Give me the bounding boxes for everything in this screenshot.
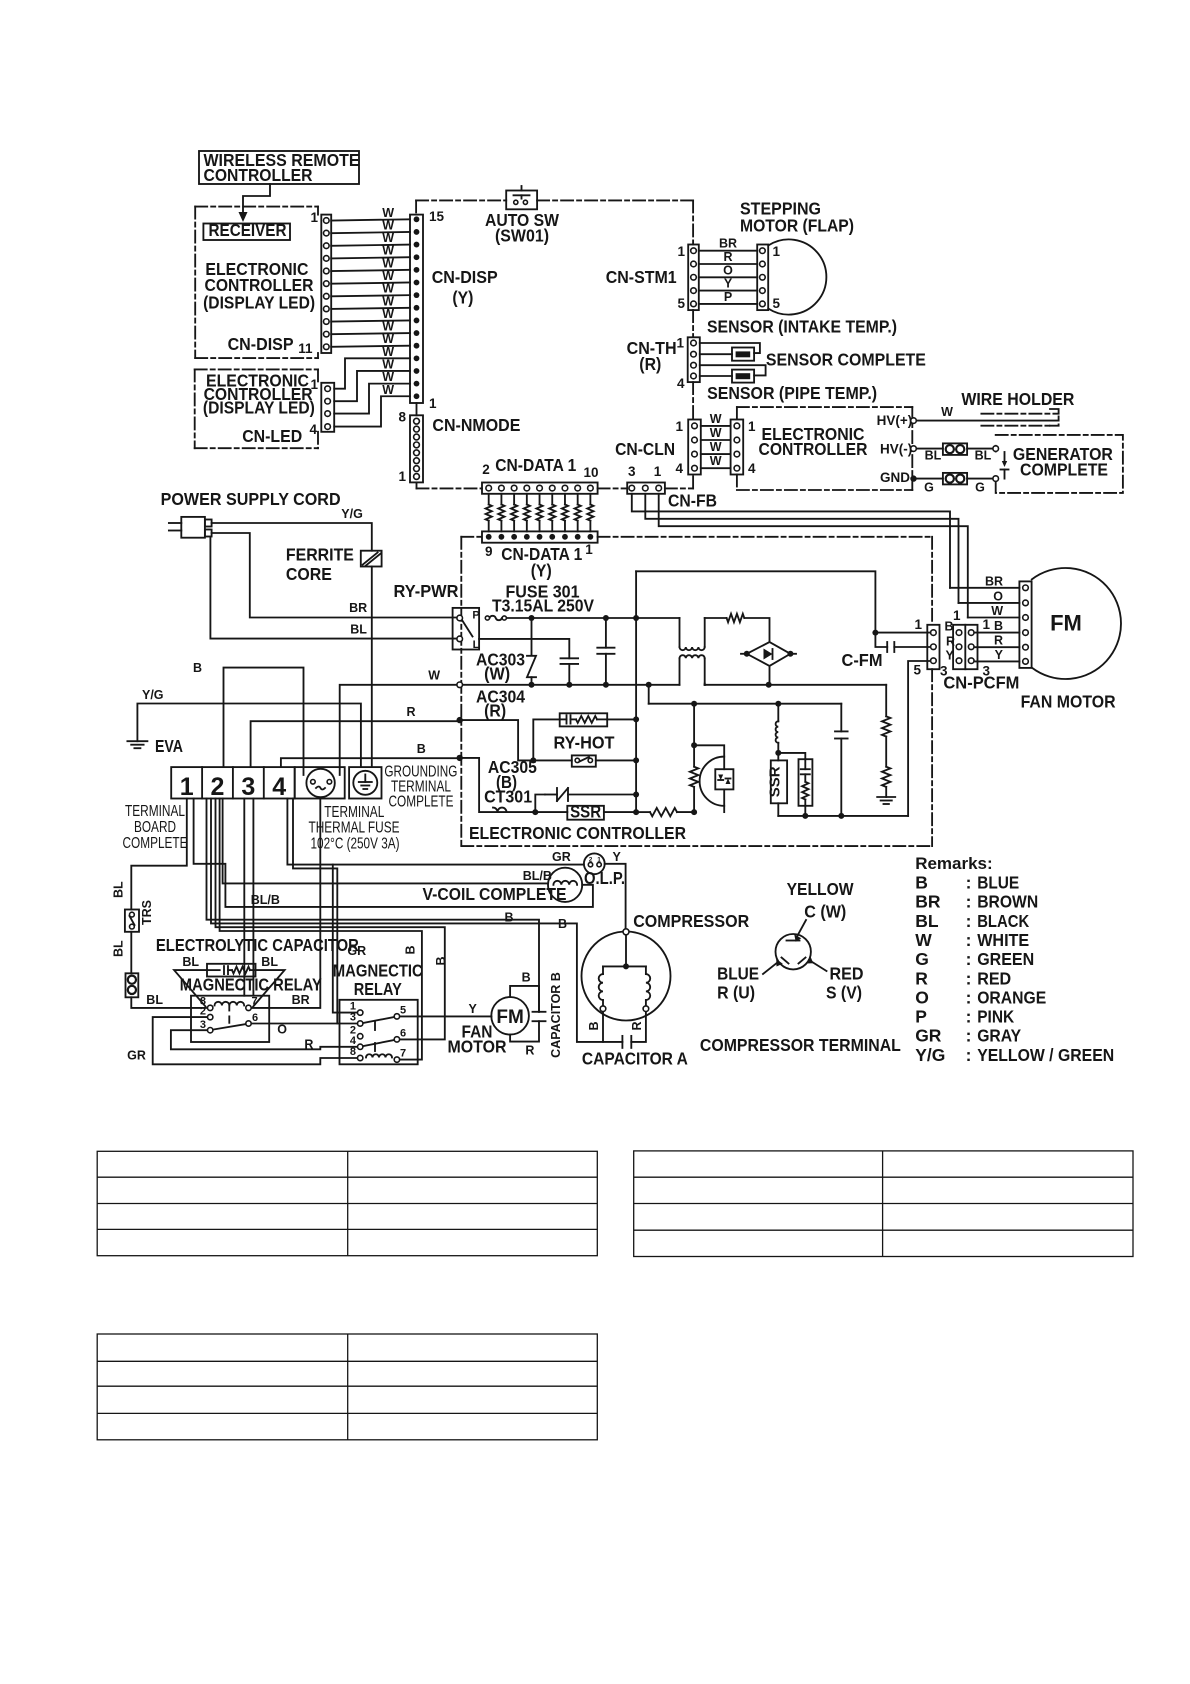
svg-text:COMPLETE: COMPLETE xyxy=(389,794,454,811)
svg-text:G: G xyxy=(924,481,934,495)
svg-text::: : xyxy=(966,892,972,912)
svg-text:R (U): R (U) xyxy=(717,983,755,1003)
svg-text:WIRE HOLDER: WIRE HOLDER xyxy=(961,389,1074,409)
svg-text::: : xyxy=(966,1045,972,1065)
svg-text:CN-DATA 1: CN-DATA 1 xyxy=(495,455,576,475)
svg-text:BL: BL xyxy=(261,955,278,969)
svg-text:BL/B: BL/B xyxy=(251,893,280,907)
svg-text:BL: BL xyxy=(925,449,942,463)
svg-text:BR: BR xyxy=(349,601,367,615)
svg-text:P: P xyxy=(724,290,732,304)
svg-text:9: 9 xyxy=(485,544,493,559)
svg-text:R: R xyxy=(946,635,955,649)
svg-text:FERRITE: FERRITE xyxy=(286,544,354,564)
svg-text:CN-STM1: CN-STM1 xyxy=(606,267,677,287)
svg-text:POWER SUPPLY CORD: POWER SUPPLY CORD xyxy=(161,489,341,509)
svg-text:COMPLETE: COMPLETE xyxy=(1020,460,1108,480)
svg-text:3: 3 xyxy=(200,1019,206,1031)
svg-text:B: B xyxy=(505,911,514,925)
svg-text::: : xyxy=(966,1007,972,1027)
svg-text:GREEN: GREEN xyxy=(977,949,1034,969)
svg-text:1: 1 xyxy=(748,419,756,434)
svg-text:BL: BL xyxy=(146,993,163,1007)
svg-text:P: P xyxy=(472,610,479,622)
svg-text:SSR: SSR xyxy=(570,801,601,821)
svg-text:2: 2 xyxy=(482,462,490,477)
svg-text:B: B xyxy=(558,917,567,931)
svg-text:HV(+): HV(+) xyxy=(877,413,913,428)
svg-text:BLACK: BLACK xyxy=(977,911,1029,931)
svg-text:4: 4 xyxy=(677,376,685,391)
svg-text:RED: RED xyxy=(977,968,1011,988)
svg-text:CN-PCFM: CN-PCFM xyxy=(943,673,1019,693)
svg-text:4: 4 xyxy=(272,773,286,801)
svg-text:BR: BR xyxy=(292,993,310,1007)
svg-text:CT301: CT301 xyxy=(484,787,532,807)
svg-text:(R): (R) xyxy=(484,700,506,720)
svg-text:B: B xyxy=(434,956,448,965)
svg-text:COMPRESSOR: COMPRESSOR xyxy=(633,911,749,931)
svg-text:5: 5 xyxy=(400,1004,406,1016)
svg-text:O: O xyxy=(915,987,929,1007)
svg-text:BL: BL xyxy=(975,449,992,463)
svg-text:Y/G: Y/G xyxy=(341,507,363,521)
svg-text:SENSOR (INTAKE TEMP.): SENSOR (INTAKE TEMP.) xyxy=(707,317,897,337)
svg-text:CONTROLLER: CONTROLLER xyxy=(204,165,313,185)
svg-text:MAGNECTIC: MAGNECTIC xyxy=(333,960,423,980)
svg-text:BR: BR xyxy=(719,237,737,251)
svg-text:WHITE: WHITE xyxy=(977,930,1029,950)
svg-text:B: B xyxy=(417,742,426,756)
svg-text:RY-HOT: RY-HOT xyxy=(554,733,615,753)
svg-text:8: 8 xyxy=(398,410,406,425)
svg-text:R: R xyxy=(723,250,732,264)
svg-text:BL: BL xyxy=(915,911,939,931)
svg-text:C (W): C (W) xyxy=(804,902,846,922)
svg-text:B: B xyxy=(193,661,202,675)
svg-text:GR: GR xyxy=(915,1026,942,1046)
svg-text:SENSOR (PIPE TEMP.): SENSOR (PIPE TEMP.) xyxy=(707,383,877,403)
svg-text:10: 10 xyxy=(583,465,598,480)
svg-text:CN-DISP: CN-DISP xyxy=(432,267,498,287)
svg-text:1: 1 xyxy=(180,773,194,801)
svg-text:HV(-): HV(-) xyxy=(880,441,912,456)
svg-text:6: 6 xyxy=(400,1027,406,1039)
svg-text:BL: BL xyxy=(182,955,199,969)
svg-text:1: 1 xyxy=(675,419,683,434)
svg-text:SENSOR COMPLETE: SENSOR COMPLETE xyxy=(766,350,926,370)
svg-text:W: W xyxy=(941,405,953,419)
svg-text:102°C (250V 3A): 102°C (250V 3A) xyxy=(311,836,400,853)
svg-text:S (V): S (V) xyxy=(826,983,862,1003)
svg-text::: : xyxy=(966,987,972,1007)
svg-text:1: 1 xyxy=(310,377,318,392)
svg-text:GND: GND xyxy=(880,470,910,485)
svg-text:GR: GR xyxy=(552,850,571,864)
svg-text:11: 11 xyxy=(298,341,313,356)
svg-text:CONTROLLER: CONTROLLER xyxy=(759,439,868,459)
svg-text:R: R xyxy=(525,1043,534,1057)
svg-text:5: 5 xyxy=(773,296,781,311)
svg-text:YELLOW: YELLOW xyxy=(787,879,854,899)
svg-text:W: W xyxy=(710,426,722,440)
svg-text:W: W xyxy=(710,440,722,454)
svg-text:O: O xyxy=(993,589,1003,603)
svg-text:COMPLETE: COMPLETE xyxy=(123,835,188,852)
svg-text:Y/G: Y/G xyxy=(142,688,164,702)
svg-text:(R): (R) xyxy=(639,354,661,374)
svg-text:1: 1 xyxy=(953,608,961,623)
svg-text:(Y): (Y) xyxy=(531,561,552,581)
svg-text:GR: GR xyxy=(127,1048,146,1062)
svg-text:ORANGE: ORANGE xyxy=(977,987,1046,1007)
svg-text:1: 1 xyxy=(429,396,437,411)
svg-text:BL: BL xyxy=(350,623,367,637)
svg-text:BL/B: BL/B xyxy=(523,869,552,883)
svg-text:W: W xyxy=(710,412,722,426)
svg-text:Y: Y xyxy=(724,277,733,291)
svg-text:MAGNECTIC RELAY: MAGNECTIC RELAY xyxy=(180,975,322,995)
svg-text:PINK: PINK xyxy=(977,1007,1014,1027)
svg-text:GRAY: GRAY xyxy=(977,1026,1021,1046)
svg-text:FM: FM xyxy=(1050,611,1082,636)
svg-text:TRS: TRS xyxy=(140,900,154,925)
svg-text:COMPRESSOR TERMINAL: COMPRESSOR TERMINAL xyxy=(700,1035,901,1055)
svg-text:GR: GR xyxy=(347,944,366,958)
svg-text:CAPACITOR B: CAPACITOR B xyxy=(549,972,563,1058)
svg-text:W: W xyxy=(915,930,932,950)
svg-text::: : xyxy=(966,968,972,988)
svg-text:TERMINAL: TERMINAL xyxy=(324,804,384,821)
svg-text:R: R xyxy=(407,705,416,719)
svg-text:FAN MOTOR: FAN MOTOR xyxy=(1021,692,1116,712)
svg-text::: : xyxy=(966,1026,972,1046)
svg-text:P: P xyxy=(915,1007,927,1027)
svg-text:4: 4 xyxy=(350,1035,357,1047)
svg-text:C-FM: C-FM xyxy=(842,650,883,670)
svg-text:CN-CLN: CN-CLN xyxy=(615,439,675,459)
svg-text:1: 1 xyxy=(310,210,318,225)
svg-text:1: 1 xyxy=(677,244,685,259)
svg-text:W: W xyxy=(382,383,394,397)
svg-text:Y: Y xyxy=(946,649,955,663)
svg-text:O.L.P.: O.L.P. xyxy=(584,868,625,888)
svg-text:O: O xyxy=(277,1023,287,1037)
svg-text:1: 1 xyxy=(983,617,991,632)
svg-text:1: 1 xyxy=(914,617,922,632)
svg-text:EVA: EVA xyxy=(155,736,183,756)
svg-text:1: 1 xyxy=(585,542,593,557)
svg-text:O: O xyxy=(723,263,733,277)
svg-text:BR: BR xyxy=(985,574,1003,588)
svg-text:W: W xyxy=(428,669,440,683)
svg-text:FM: FM xyxy=(496,1007,523,1028)
svg-text:5: 5 xyxy=(677,296,685,311)
svg-text:RED: RED xyxy=(830,964,864,984)
svg-text:7: 7 xyxy=(252,996,258,1008)
svg-text:8: 8 xyxy=(350,1046,356,1058)
svg-text:6: 6 xyxy=(252,1012,258,1024)
svg-text:2: 2 xyxy=(211,773,225,801)
svg-text:1: 1 xyxy=(398,469,406,484)
svg-text:5: 5 xyxy=(913,663,921,678)
svg-text:CAPACITOR A: CAPACITOR A xyxy=(582,1049,688,1069)
svg-text:CN-LED: CN-LED xyxy=(242,426,302,446)
svg-text:15: 15 xyxy=(429,209,445,224)
svg-text:BR: BR xyxy=(915,892,941,912)
svg-text:1: 1 xyxy=(654,464,662,479)
svg-text:B: B xyxy=(994,619,1003,633)
svg-text:7: 7 xyxy=(400,1048,406,1060)
svg-text:(W): (W) xyxy=(484,664,510,684)
svg-text:BROWN: BROWN xyxy=(977,892,1038,912)
svg-text:1: 1 xyxy=(676,336,684,351)
svg-text::: : xyxy=(966,949,972,969)
svg-text:2: 2 xyxy=(200,1006,206,1018)
svg-text:Y/G: Y/G xyxy=(915,1045,945,1065)
svg-text:W: W xyxy=(991,604,1003,618)
svg-text:3: 3 xyxy=(241,773,255,801)
svg-text:(DISPLAY LED): (DISPLAY LED) xyxy=(203,398,315,418)
svg-text:R: R xyxy=(630,1021,644,1030)
svg-text:YELLOW / GREEN: YELLOW / GREEN xyxy=(977,1045,1114,1065)
svg-text:R: R xyxy=(994,634,1003,648)
svg-text:4: 4 xyxy=(309,422,317,437)
svg-text:MOTOR (FLAP): MOTOR (FLAP) xyxy=(740,216,854,236)
svg-text:TERMINAL: TERMINAL xyxy=(125,803,185,820)
svg-text:1: 1 xyxy=(773,244,781,259)
svg-text:T3.15AL 250V: T3.15AL 250V xyxy=(492,596,594,616)
svg-text:V-COIL COMPLETE: V-COIL COMPLETE xyxy=(423,884,567,904)
svg-text:R: R xyxy=(915,968,928,988)
svg-text:BOARD: BOARD xyxy=(134,819,176,836)
svg-text:BL: BL xyxy=(112,940,126,957)
svg-text:B: B xyxy=(587,1021,601,1030)
svg-text:BL: BL xyxy=(112,881,126,898)
svg-text:RELAY: RELAY xyxy=(354,979,402,999)
svg-text::: : xyxy=(966,873,972,893)
svg-text:RY-PWR: RY-PWR xyxy=(394,581,459,601)
svg-text:4: 4 xyxy=(748,461,756,476)
svg-text:B: B xyxy=(915,873,928,893)
svg-text:CN-NMODE: CN-NMODE xyxy=(432,415,520,435)
svg-text:ELECTROLYTIC CAPACITOR: ELECTROLYTIC CAPACITOR xyxy=(156,935,359,955)
svg-text:THERMAL FUSE: THERMAL FUSE xyxy=(309,820,400,837)
svg-text:SSR: SSR xyxy=(766,766,783,797)
svg-text:BLUE: BLUE xyxy=(717,964,759,984)
svg-text:B: B xyxy=(522,971,531,985)
svg-text:CORE: CORE xyxy=(286,564,332,584)
svg-text:MOTOR: MOTOR xyxy=(448,1036,507,1056)
svg-text:R: R xyxy=(304,1038,313,1052)
svg-text:(Y): (Y) xyxy=(452,288,473,308)
svg-text:Y: Y xyxy=(613,850,622,864)
svg-text:Y: Y xyxy=(468,1002,477,1016)
svg-text:3: 3 xyxy=(350,1012,356,1024)
svg-text:CN-FB: CN-FB xyxy=(668,491,717,511)
svg-text:Y: Y xyxy=(995,648,1004,662)
svg-text:4: 4 xyxy=(675,461,683,476)
svg-text::: : xyxy=(966,930,972,950)
svg-text:ELECTRONIC CONTROLLER: ELECTRONIC CONTROLLER xyxy=(469,823,686,843)
svg-text:CN-DISP: CN-DISP xyxy=(228,334,294,354)
svg-text:G: G xyxy=(915,949,929,969)
svg-text::: : xyxy=(966,911,972,931)
svg-text:G: G xyxy=(975,481,985,495)
svg-text:RECEIVER: RECEIVER xyxy=(209,220,287,240)
svg-text:Remarks:: Remarks: xyxy=(915,854,993,873)
svg-text:(DISPLAY LED): (DISPLAY LED) xyxy=(203,293,315,313)
svg-text:W: W xyxy=(710,454,722,468)
svg-text:B: B xyxy=(404,945,418,954)
svg-text:3: 3 xyxy=(628,464,636,479)
svg-text:BLUE: BLUE xyxy=(977,873,1019,893)
svg-text:(SW01): (SW01) xyxy=(495,226,549,246)
